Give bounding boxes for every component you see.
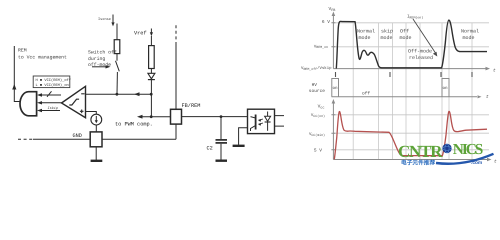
svg-text:H ■ VCC(REM)_off: H ■ VCC(REM)_off [36, 78, 71, 83]
svg-text:on: on [333, 86, 338, 91]
svg-text:Off-mode: Off-mode [408, 49, 432, 55]
svg-text:skip: skip [381, 29, 393, 35]
svg-text:Normal: Normal [461, 29, 479, 35]
svg-text:source: source [309, 89, 325, 94]
svg-text:t: t [486, 95, 489, 100]
svg-text:CNTR: CNTR [398, 142, 443, 161]
svg-text:Vref: Vref [134, 31, 147, 37]
svg-text:to Vcc management: to Vcc management [18, 54, 67, 60]
svg-text:Off: Off [400, 29, 409, 35]
svg-text:REM: REM [18, 48, 27, 54]
svg-text:to PWM comp.: to PWM comp. [115, 121, 153, 127]
svg-text:GND: GND [73, 133, 82, 139]
svg-text:HV: HV [312, 83, 318, 88]
svg-text:t: t [494, 159, 497, 164]
svg-text:Switch off: Switch off [88, 50, 117, 56]
svg-text:off-mode: off-mode [88, 62, 111, 68]
svg-text:NICS: NICS [453, 141, 484, 158]
svg-text:.com: .com [471, 160, 482, 166]
svg-text:during: during [88, 56, 105, 62]
svg-text:FB/REM: FB/REM [182, 103, 201, 109]
svg-text:mode: mode [400, 35, 412, 41]
svg-text:t: t [493, 68, 496, 73]
svg-text:mode: mode [381, 35, 393, 41]
svg-text:off: off [362, 91, 370, 96]
svg-text:mode: mode [359, 35, 371, 41]
svg-text:Normal: Normal [357, 29, 375, 35]
svg-text:C2: C2 [207, 145, 213, 151]
svg-text:on: on [443, 86, 448, 91]
svg-text:Isense: Isense [98, 18, 111, 22]
svg-text:5 V: 5 V [314, 148, 322, 153]
svg-text:mode: mode [463, 35, 475, 41]
svg-text:Iskip: Iskip [48, 106, 59, 111]
svg-text:6 V: 6 V [322, 19, 330, 24]
svg-text:电子元件推荐: 电子元件推荐 [401, 160, 435, 167]
svg-text:L ■ VCC(REM)_on: L ■ VCC(REM)_on [36, 83, 69, 88]
svg-text:released: released [409, 55, 433, 61]
